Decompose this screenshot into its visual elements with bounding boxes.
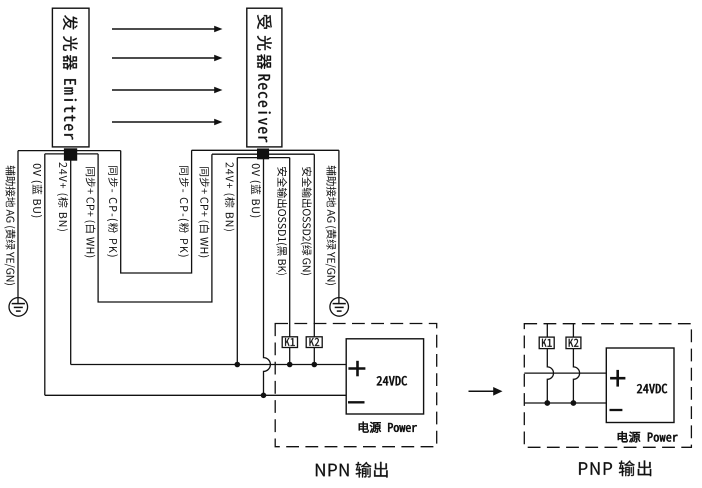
label OSSD2 (301, 167, 312, 275)
power label NPN (359, 422, 417, 433)
emitter fan wire lower (45, 153, 98, 155)
relay K1 NPN (282, 337, 297, 348)
receiver box (247, 8, 282, 147)
beam arrow 2 (112, 57, 215, 59)
junction dot K2 PNP (571, 400, 577, 406)
label CP- emitter (107, 166, 118, 257)
wire K1 PNP (547, 324, 553, 403)
label OSSD1 (276, 167, 287, 275)
wire +24V bus PNP (524, 372, 606, 374)
label AG emitter (4, 166, 15, 285)
receiver fan wire upper (192, 149, 339, 151)
arrow NPN to PNP (469, 390, 495, 392)
ground symbol right (330, 298, 349, 317)
relay K1 PNP (539, 337, 554, 349)
wire 24V+ emitter (70, 158, 72, 365)
wire AG receiver (338, 150, 340, 303)
plus terminal NPN (356, 361, 359, 377)
receiver connector (257, 149, 269, 160)
label 0V receiver (250, 164, 261, 217)
label CP+ emitter (84, 167, 95, 257)
ground symbol left (9, 298, 28, 317)
power label PNP (618, 431, 678, 442)
wire +24V bus NPN (71, 364, 347, 366)
relay K2 NPN (306, 337, 322, 348)
beam arrow 3 (112, 89, 215, 91)
wire OSSD2 upper (313, 154, 315, 337)
emitter fan wire upper (18, 150, 121, 152)
label 0V emitter (31, 164, 42, 217)
power supply box NPN (346, 339, 423, 414)
wire 24V+ receiver (236, 158, 238, 365)
label AG receiver (325, 166, 336, 285)
relay K2 PNP (566, 337, 581, 349)
receiver label 受光器 Receiver (257, 15, 272, 29)
wire CP+ net (98, 154, 212, 302)
wire 0V bus PNP (524, 402, 606, 404)
wire 0V receiver (264, 159, 271, 396)
minus terminal PNP (610, 409, 623, 411)
junction dot K1 PNP (544, 400, 550, 406)
wire CP- net (121, 150, 192, 273)
beam arrow 4 (112, 121, 215, 123)
junction dot 0V receiver (261, 393, 267, 399)
emitter label 发光器 Emitter (63, 15, 78, 30)
24VDC label PNP (637, 384, 667, 393)
plus terminal PNP (616, 370, 619, 387)
wire OSSD2 lower (313, 348, 315, 365)
wire AG emitter (17, 151, 19, 304)
wire 0V emitter (44, 154, 46, 395)
beam arrow 1 (112, 28, 215, 30)
junction dot K1 NPN (287, 362, 293, 368)
label 24V+ receiver (224, 162, 235, 231)
label 24V+ emitter (57, 162, 68, 231)
receiver fan wire middle (212, 153, 314, 155)
NPN output caption (316, 462, 388, 478)
power supply box PNP (606, 348, 674, 423)
wire OSSD1 lower (289, 348, 291, 365)
minus terminal NPN (348, 401, 365, 403)
receiver fan wire lower (237, 157, 289, 159)
PNP output caption (579, 461, 651, 477)
label CP+ receiver (198, 167, 209, 257)
NPN dashed box (275, 324, 437, 447)
junction dot 24V+ receiver (235, 362, 241, 368)
emitter connector (64, 148, 77, 160)
wire K2 PNP (573, 324, 579, 403)
label CP- receiver (178, 166, 189, 257)
wire 0V bus NPN (45, 394, 346, 396)
24VDC label NPN (377, 376, 407, 385)
junction dot K2 NPN (312, 362, 318, 368)
emitter box (52, 8, 89, 147)
PNP dashed box (524, 324, 691, 448)
wire OSSD1 upper (289, 158, 291, 337)
